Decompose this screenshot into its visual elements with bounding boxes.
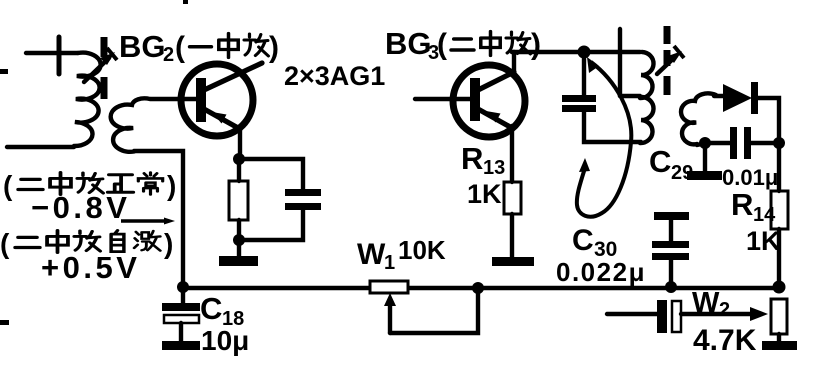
wire BG2 emitter down — [238, 127, 242, 159]
label BG3 — [385, 26, 439, 64]
label C18 — [200, 291, 244, 330]
wire BG3 collector up — [512, 52, 516, 73]
ground bar (0.022u top) — [654, 212, 689, 220]
svg-text:): ) — [531, 28, 541, 61]
label (一中放) — [175, 31, 279, 64]
diode D — [723, 82, 758, 114]
svg-text:2×3AG1: 2×3AG1 — [284, 61, 385, 91]
node tick crossing top lead — [57, 37, 62, 74]
node 0.022u bus junction — [665, 281, 677, 293]
wire diode node to R14 — [777, 143, 781, 191]
wire collector bus — [512, 50, 640, 55]
svg-text:C: C — [200, 291, 222, 326]
T1 tuning arrow — [84, 48, 117, 82]
wire C18 top — [181, 287, 185, 303]
svg-text:R: R — [461, 141, 483, 176]
svg-text:+0.5V: +0.5V — [41, 250, 140, 285]
leader line — [121, 219, 168, 223]
node 0.01 cap right — [773, 137, 785, 149]
node emitter junction bottom — [233, 234, 245, 246]
ground (0.01u) — [687, 171, 722, 180]
BG3 collector lead — [478, 72, 514, 90]
label R14 — [731, 187, 776, 226]
svg-text:14: 14 — [753, 204, 776, 226]
node R14/W2 bus junction — [773, 281, 786, 294]
wire to ground — [237, 240, 241, 256]
transformer T2 primary winding lower — [640, 97, 654, 143]
svg-text:W: W — [692, 287, 720, 319]
wire C30 bottom — [584, 112, 641, 142]
svg-text:(: ( — [437, 28, 447, 61]
wire R13 to ground — [510, 214, 514, 257]
wire ground to cap — [669, 220, 673, 241]
resistor (BG2 emitter) — [229, 181, 248, 220]
edge mark top — [183, 0, 188, 4]
wire T1 primary top lead — [26, 51, 78, 55]
svg-text:4.7K: 4.7K — [693, 324, 757, 357]
svg-text:13: 13 — [483, 157, 505, 179]
capacitor 0.022u plates — [652, 241, 689, 260]
svg-text:1K: 1K — [746, 226, 781, 256]
C30 callout arrow (big loop) — [577, 57, 631, 217]
svg-text:): ) — [269, 31, 279, 64]
wire W2 to ground — [777, 334, 781, 341]
wire BG3 base stub — [415, 97, 470, 101]
BG2 emitter lead — [204, 109, 240, 129]
label R13 — [461, 141, 505, 179]
wire to resistor — [237, 159, 241, 181]
W1 wiper arrow — [384, 293, 396, 333]
capacitor (emitter bypass) plates — [285, 189, 321, 196]
svg-text:): ) — [167, 170, 176, 201]
svg-text:C: C — [572, 224, 594, 257]
capacitor C30 plates — [562, 95, 596, 102]
BG2 base bar — [196, 78, 206, 122]
T2 tuning arrow — [657, 46, 684, 74]
coupling capacitor minus plate — [672, 301, 681, 332]
capacitor C18 minus plate — [164, 315, 199, 323]
resistor R14 — [771, 191, 788, 229]
transformer T2 primary winding upper — [640, 52, 654, 98]
wire to ground (0.01u) — [703, 143, 707, 171]
wire node to cap — [705, 141, 731, 145]
wire audio out left — [607, 312, 658, 316]
wire T2 secondary bottom lead — [697, 143, 706, 145]
ground R13 — [492, 257, 534, 266]
node emitter junction top — [233, 153, 245, 165]
ground C18 — [162, 341, 200, 350]
label (二中放) — [437, 28, 541, 61]
ground W2 — [762, 341, 797, 350]
svg-text:): ) — [164, 228, 173, 259]
svg-text:2: 2 — [163, 44, 174, 66]
BG2 collector lead — [204, 63, 262, 90]
wire emitter bypass cap top — [239, 159, 303, 189]
label W1 — [357, 238, 395, 274]
BG2 emitter arrowhead (PNP) — [212, 112, 227, 124]
transformer T1 core (dashed) — [101, 37, 108, 99]
transformer T1 primary winding — [74, 53, 101, 146]
wire bus right segment — [407, 286, 784, 291]
wire cap to bus — [669, 260, 673, 286]
transistor BG2 circle — [181, 64, 253, 136]
transformer T2 core (dashed) — [664, 26, 671, 95]
potentiometer W1 body — [370, 281, 408, 293]
node W1 junction — [472, 282, 484, 294]
label (二中放正常) — [3, 170, 176, 201]
node 0.01 cap left — [699, 137, 711, 149]
svg-text:(: ( — [175, 31, 185, 64]
edge mark left lower — [0, 320, 9, 325]
label BG2 — [119, 29, 174, 66]
node bus / C18 junction — [177, 281, 189, 293]
label C30 — [572, 224, 617, 261]
wire BG3 emitter down — [510, 126, 514, 182]
wire resistor to lower node — [237, 220, 241, 240]
BG3 base bar — [470, 78, 480, 121]
wire cap to right node — [751, 141, 779, 145]
coupling capacitor plus plate — [657, 300, 667, 333]
svg-text:1: 1 — [384, 252, 395, 274]
svg-text:1K: 1K — [467, 179, 502, 209]
capacitor 0.01u plates — [730, 127, 751, 159]
wire T1 secondary bottom lead to bus — [134, 151, 183, 286]
wire diode anode — [714, 94, 723, 98]
W2 wiper arrowhead — [750, 307, 768, 321]
capacitor C18 plus plate — [162, 303, 200, 311]
edge mark left upper — [0, 69, 8, 74]
svg-text:(: ( — [0, 228, 10, 259]
label W2 — [692, 287, 730, 321]
potentiometer W2 body — [771, 299, 787, 334]
transistor BG3 circle — [453, 65, 525, 137]
wire emitter bypass cap bottom — [239, 210, 303, 240]
wire bus left segment — [183, 286, 371, 291]
wire diode cathode — [758, 98, 779, 143]
svg-text:(: ( — [3, 170, 13, 201]
svg-text:0.022μ: 0.022μ — [556, 257, 646, 287]
ground (BG2 emitter) — [219, 256, 258, 266]
wire T1 primary bottom lead — [7, 145, 74, 149]
resistor R13 — [504, 182, 521, 214]
node collector junction — [578, 46, 591, 59]
T2 primary top stub — [618, 29, 622, 96]
wire R14 to bus — [777, 229, 781, 286]
svg-text:BG: BG — [385, 26, 432, 61]
svg-text:2: 2 — [719, 299, 730, 321]
BG3 emitter lead — [478, 109, 512, 128]
svg-text:C: C — [649, 144, 671, 179]
label (二中放自激) — [0, 228, 173, 259]
wire cap to W2 wiper — [681, 312, 752, 316]
svg-text:10μ: 10μ — [201, 325, 249, 356]
svg-text:R: R — [731, 187, 753, 222]
svg-text:−0.8V: −0.8V — [31, 190, 130, 225]
T2 primary mid return — [620, 94, 640, 98]
label C29 — [649, 144, 693, 184]
svg-text:BG: BG — [119, 29, 166, 64]
BG3 emitter arrowhead (PNP) — [486, 111, 501, 123]
transformer T1 secondary winding — [111, 98, 196, 151]
wire W1 wiper loop — [390, 288, 478, 333]
wire node to C30 — [582, 52, 586, 95]
svg-text:10K: 10K — [398, 235, 446, 265]
svg-text:W: W — [357, 238, 386, 271]
wire C18 bottom — [179, 323, 183, 341]
transformer T2 secondary winding — [681, 93, 716, 144]
